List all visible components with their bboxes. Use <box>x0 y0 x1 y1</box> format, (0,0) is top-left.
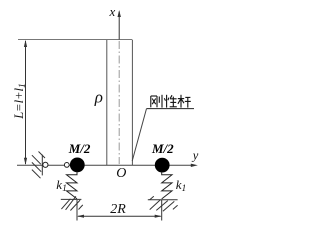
roller circle <box>43 162 48 167</box>
left wall support <box>32 152 45 179</box>
svg-text:M/2: M/2 <box>151 141 174 156</box>
gan <box>178 98 184 100</box>
left mass M/2 <box>70 158 85 173</box>
L dimension line (vertical, both arrows) <box>25 41 27 164</box>
L = l + l1 rotated label <box>12 83 28 120</box>
svg-text:y: y <box>191 149 199 163</box>
xing <box>166 95 168 108</box>
rigid-rod label (CJK drawn as strokes) <box>151 95 191 108</box>
left ground <box>61 196 83 210</box>
right ground <box>148 196 178 211</box>
gang <box>150 96 152 107</box>
svg-text:O: O <box>116 166 126 181</box>
label underline + leader <box>147 108 195 110</box>
svg-text:L=l+l1: L=l+l1 <box>12 83 28 120</box>
y axis / baseline <box>17 164 193 166</box>
rod top edge + left extension line <box>18 39 132 41</box>
x axis <box>118 12 120 40</box>
svg-text:ρ: ρ <box>94 87 103 106</box>
right mass M/2 <box>155 158 170 173</box>
rigid rod body (vertical rectangle) <box>107 40 133 165</box>
svg-text:M/2: M/2 <box>68 141 91 156</box>
left spring k1 <box>67 172 78 199</box>
rod centerline (dash-dot) <box>118 41 120 164</box>
2R dimension <box>76 200 78 221</box>
svg-text:x: x <box>109 4 116 19</box>
svg-text:2R: 2R <box>110 202 126 217</box>
right spring k1 <box>162 172 172 199</box>
hinge circle <box>64 163 69 168</box>
